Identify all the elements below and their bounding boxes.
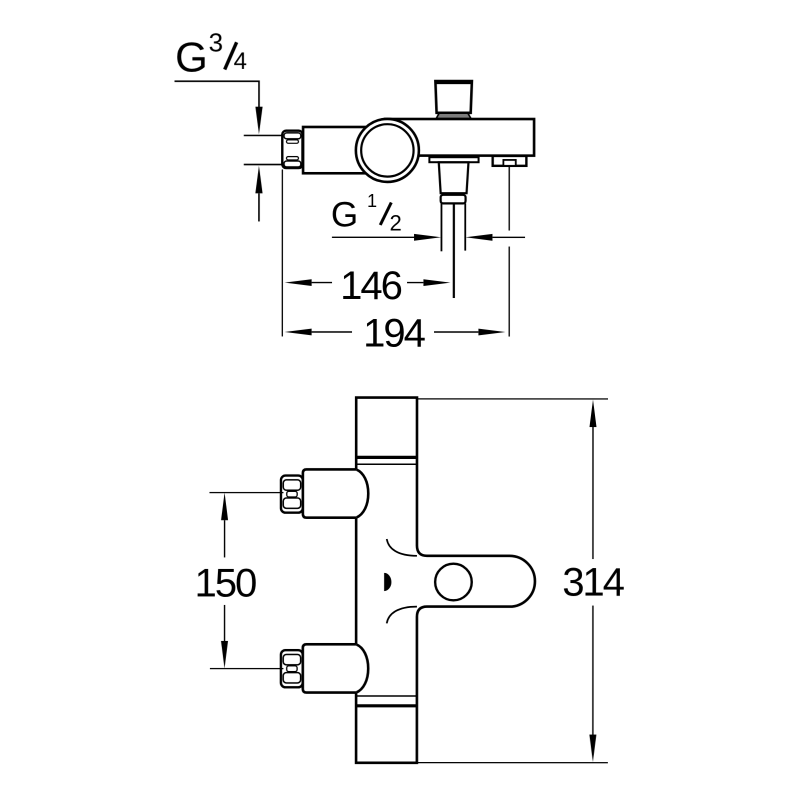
150 dimension line lower — [224, 605, 226, 641]
bottom inlet hex nut — [281, 650, 303, 687]
tail line of up arrow — [258, 193, 260, 221]
G 1/2 dimension line left — [332, 236, 434, 238]
146 dimension arrow right — [423, 279, 450, 286]
diverter knob (top) — [435, 81, 472, 113]
extension line from spout (lower part) — [508, 247, 510, 337]
shower outlet ring nut — [441, 195, 466, 204]
label G 3/4 — [175, 27, 247, 80]
bottom coupling thin line — [356, 695, 417, 697]
label G 1/2 — [331, 191, 402, 235]
shower outlet body — [439, 162, 469, 193]
146 dimension line left — [312, 282, 332, 284]
top coupling thick line — [356, 456, 417, 459]
194 dimension arrow right — [478, 329, 505, 336]
hose center extension line (146 dim) — [453, 204, 455, 298]
right body (top view) — [385, 119, 534, 156]
314 extension line top — [418, 398, 608, 400]
bath spout outlet tab — [493, 156, 527, 166]
arrow up to hex flat — [255, 166, 262, 194]
dark safety button mark — [384, 573, 391, 591]
hex union nut (top view) — [282, 131, 302, 168]
knob collar (grey) — [436, 113, 471, 118]
150 arrow up — [221, 493, 228, 521]
shower outlet flange — [429, 157, 478, 162]
svg-text:G: G — [175, 33, 208, 80]
hose right edge — [464, 203, 466, 250]
top coupling thin line — [356, 463, 417, 465]
thermostat handle outer circle — [356, 119, 419, 182]
arrow down to hex flat — [255, 107, 262, 135]
svg-text:146: 146 — [340, 264, 402, 308]
314 arrow down — [589, 735, 596, 763]
194 dimension line left — [312, 331, 352, 333]
bottom inlet arm — [303, 644, 356, 692]
body shoulder curve bottom — [387, 607, 417, 624]
G 1/2 arrow left-pointing — [465, 234, 492, 241]
dimension flat line lower — [244, 164, 282, 166]
handle circle (bottom view) — [435, 564, 472, 601]
svg-text:1: 1 — [367, 191, 377, 211]
leader line from G 3/4 — [175, 81, 260, 108]
bottom coupling thick line — [356, 704, 417, 707]
spout inner tab — [503, 160, 515, 166]
150 extension line bottom — [210, 668, 284, 670]
svg-text:3: 3 — [209, 27, 223, 57]
150 arrow down — [221, 641, 228, 669]
svg-text:150: 150 — [195, 561, 257, 605]
314 dimension line lower — [592, 606, 594, 735]
svg-text:314: 314 — [562, 561, 625, 605]
hose left edge — [440, 203, 442, 251]
G 1/2 arrow right-pointing — [414, 234, 441, 241]
150 dimension line upper — [224, 520, 226, 557]
body shoulder curve top — [387, 539, 417, 556]
svg-text:G: G — [331, 195, 358, 234]
extension line from spout (upper part) — [508, 166, 510, 231]
194 dimension arrow left — [285, 329, 312, 336]
thermostat handle inner circle — [361, 124, 413, 176]
194 dimension line right — [434, 331, 478, 333]
body silhouette (column + spout + arm caps) — [356, 398, 535, 763]
left body cylinder (top view) — [303, 127, 393, 173]
top inlet arm — [303, 469, 356, 517]
314 extension line bottom — [418, 762, 608, 764]
G 1/2 dimension line right — [492, 236, 525, 238]
314 arrow up — [589, 400, 596, 428]
314 dimension line upper — [592, 427, 594, 559]
146 dimension arrow left — [285, 279, 312, 286]
150 extension line top — [209, 492, 283, 494]
knob top edge thick — [435, 81, 472, 84]
146 dimension line right — [407, 282, 423, 284]
svg-text:4: 4 — [234, 48, 247, 75]
svg-text:194: 194 — [363, 311, 426, 355]
dimension flat line upper — [244, 134, 282, 136]
svg-text:2: 2 — [390, 210, 402, 235]
top inlet hex nut — [281, 476, 303, 513]
extension line left (from hex nut down to 194 dim) — [281, 169, 283, 336]
